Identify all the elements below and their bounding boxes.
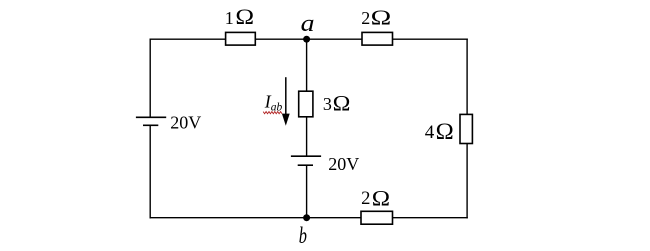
svg-text:Ω: Ω bbox=[371, 5, 392, 29]
node b junction dot bbox=[303, 214, 310, 221]
battery V2 long plate bbox=[291, 155, 321, 157]
battery V2 short plate bbox=[298, 164, 313, 166]
current arrow I_ab (head) bbox=[282, 114, 290, 126]
svg-text:2: 2 bbox=[361, 188, 370, 209]
wire middle segment (R3 to battery V2) bbox=[306, 117, 308, 156]
wire middle lower segment (battery V2 to node b) bbox=[306, 165, 308, 218]
wire top-left segment bbox=[150, 38, 226, 40]
wire right upper segment bbox=[466, 39, 468, 115]
wire top-right segment bbox=[393, 38, 468, 40]
svg-text:b: b bbox=[299, 223, 307, 248]
svg-text:Ω: Ω bbox=[235, 4, 254, 29]
resistor 1Ω box (top left) bbox=[226, 32, 256, 45]
resistor 2Ω box (top right) bbox=[362, 32, 393, 45]
svg-text:Ω: Ω bbox=[333, 91, 351, 115]
wire bottom-left segment bbox=[150, 217, 362, 219]
wire bottom-right segment bbox=[393, 217, 468, 219]
svg-text:1: 1 bbox=[225, 8, 234, 28]
wire right lower segment bbox=[466, 144, 468, 219]
wire top-middle segment bbox=[255, 38, 362, 40]
svg-text:20V: 20V bbox=[328, 154, 359, 174]
svg-text:Ω: Ω bbox=[436, 119, 454, 145]
svg-text:Ω: Ω bbox=[372, 185, 390, 210]
svg-text:2: 2 bbox=[361, 8, 370, 28]
svg-text:a: a bbox=[301, 11, 315, 37]
svg-text:3: 3 bbox=[323, 94, 332, 114]
wire left lower segment bbox=[149, 125, 151, 218]
resistor 4Ω box (right side, vertical) bbox=[460, 114, 472, 143]
resistor 3Ω box (middle, vertical) bbox=[299, 91, 313, 117]
battery V1 long plate bbox=[136, 116, 166, 118]
svg-text:Iab: Iab bbox=[264, 91, 283, 113]
node a junction dot bbox=[303, 36, 310, 43]
resistor 2Ω box (bottom) bbox=[361, 211, 393, 224]
current arrow I_ab (shaft) bbox=[285, 77, 287, 115]
svg-text:4: 4 bbox=[425, 122, 435, 143]
battery V1 short plate bbox=[143, 124, 158, 126]
wire middle upper segment (node a to R3) bbox=[306, 39, 308, 91]
svg-text:20V: 20V bbox=[170, 112, 201, 132]
wire left upper segment bbox=[149, 39, 151, 118]
spell-check squiggle under I_ab bbox=[263, 112, 282, 114]
